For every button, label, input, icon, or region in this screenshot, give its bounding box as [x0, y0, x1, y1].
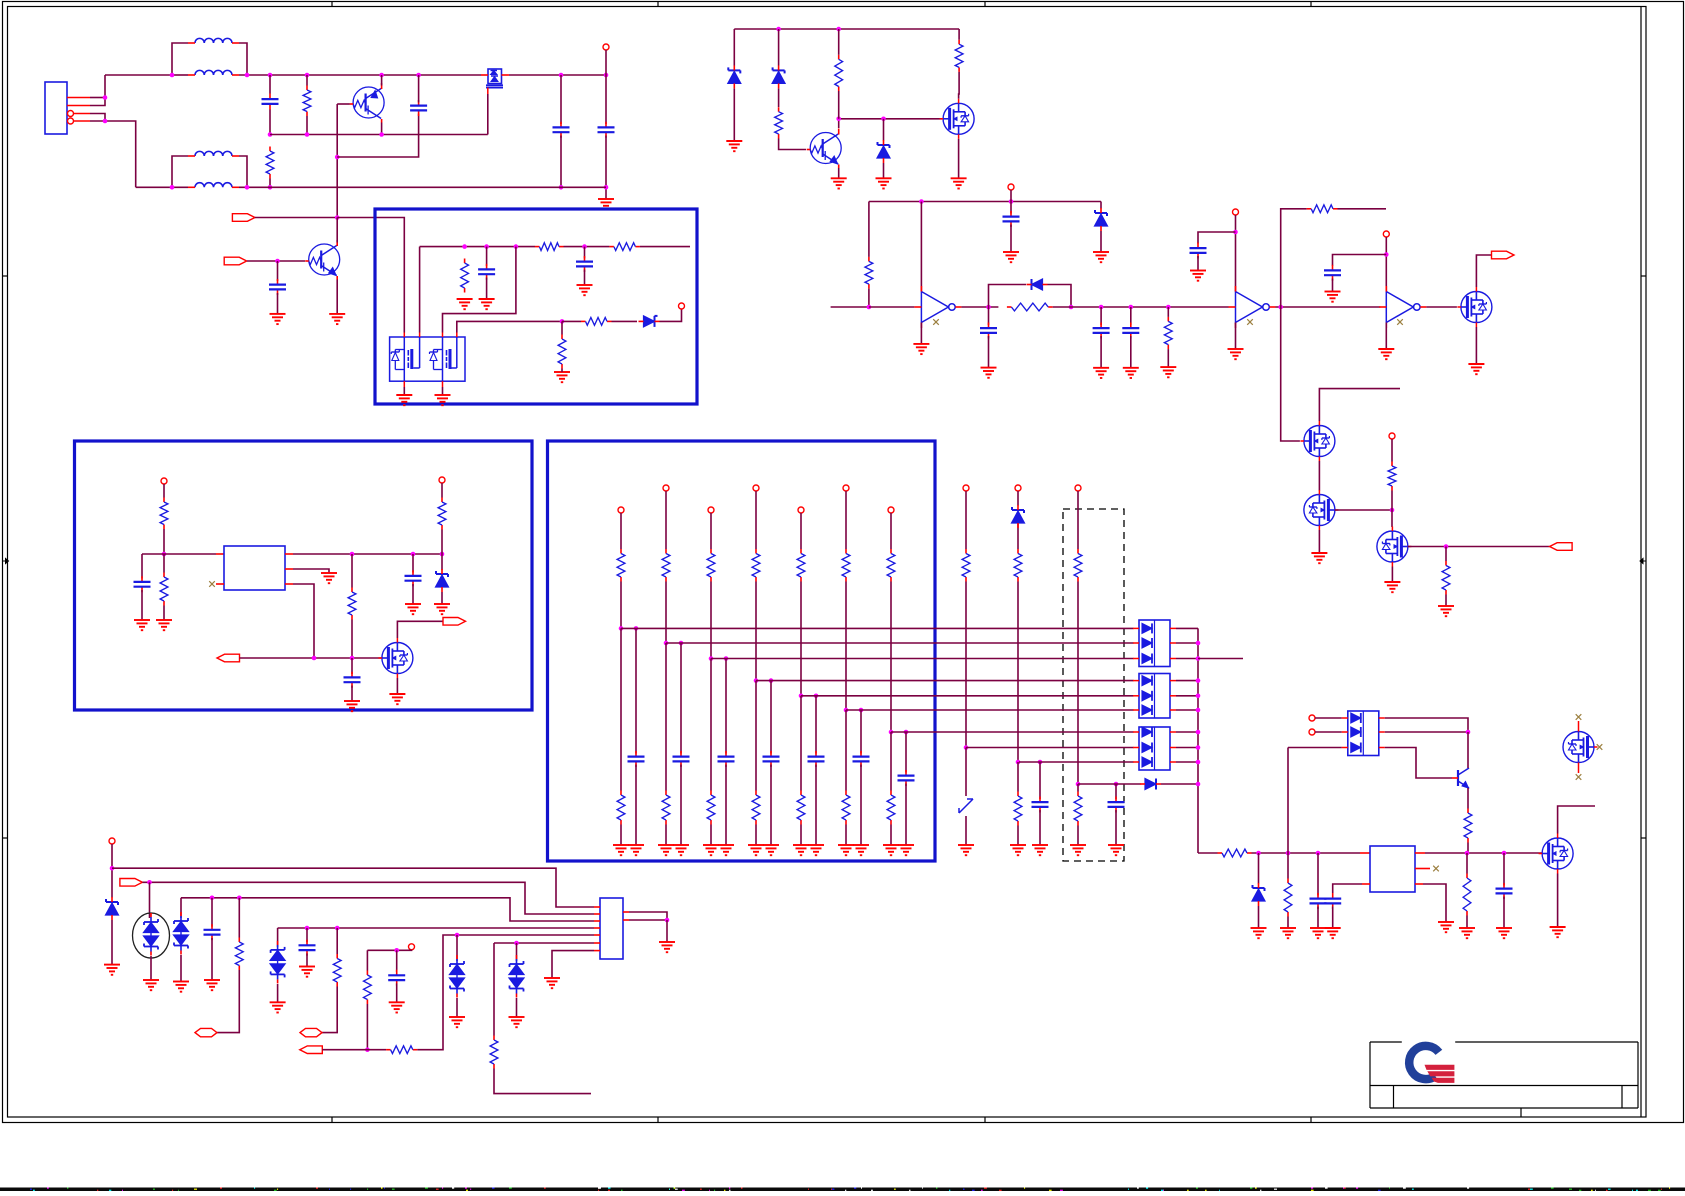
ground at R23 — [1280, 928, 1296, 938]
terminal ladder6 — [843, 485, 849, 491]
ground ladder8 — [958, 845, 974, 855]
capacitor C6 — [269, 279, 286, 295]
capacitor CL9 — [1032, 797, 1049, 813]
junction R7 top — [560, 319, 565, 324]
wire cap leg3 bottom — [725, 765, 727, 846]
junction C9 top — [1009, 199, 1014, 204]
wire R21 bottom — [1467, 843, 1469, 854]
net label BIDIR2 — [300, 1028, 322, 1036]
wire R7 stub — [561, 321, 563, 334]
junction ladder6 bus — [844, 708, 849, 713]
zener D1 — [639, 316, 660, 327]
junction R9 top — [836, 27, 841, 32]
terminal ladder2 — [663, 485, 669, 491]
wire DA4 row3 in — [1288, 747, 1342, 749]
junction collect y732.0 — [1196, 730, 1201, 735]
wire inductor loop lower — [172, 156, 188, 187]
net label BL-A — [120, 879, 142, 887]
inverter U1A — [914, 286, 961, 328]
ground at M4 — [1468, 364, 1484, 374]
junction C8 top — [582, 244, 587, 249]
wire C14 tap — [1333, 255, 1387, 266]
wire inv2 out — [1276, 306, 1381, 308]
wire br bus b — [1252, 852, 1361, 854]
resistor R11 — [865, 257, 873, 289]
zener diode Z6 — [1012, 505, 1025, 528]
wire cap leg10 top — [1115, 784, 1117, 799]
wire inv2 out up — [1281, 209, 1307, 307]
wire C7 top — [486, 247, 488, 266]
wire OPT1 to DA4 — [1315, 717, 1342, 719]
wire ladder9 top2 — [1017, 523, 1019, 549]
junction C10 top — [1099, 305, 1104, 310]
junction ladder3 bus — [709, 656, 714, 661]
wire Z7 bottom — [1258, 906, 1260, 928]
no-connect M9 drain — [1576, 714, 1582, 720]
wire ladder9 gnd — [1017, 826, 1019, 846]
wire cap leg6 top — [860, 710, 862, 754]
wire matrix bus 2 — [666, 642, 1134, 644]
wire VCC5 to R15 — [1391, 439, 1393, 462]
inductor L2 — [188, 70, 239, 75]
wire ladder2 gnd — [665, 825, 667, 846]
zener diode Z3 — [877, 140, 890, 163]
wire BL bus4 — [278, 927, 594, 929]
resistor RL6b — [842, 791, 850, 825]
wire bus3 extension — [1198, 658, 1243, 660]
terminal ladder9 — [1015, 485, 1021, 491]
ground ladder1 — [613, 845, 629, 855]
ground at C18 — [1310, 928, 1326, 938]
ground at TVS5 — [509, 1017, 525, 1027]
resistor R8 — [775, 107, 783, 138]
junction ladder7 bus — [889, 730, 894, 735]
wire to R6 — [562, 320, 581, 322]
wire Z3 bottom — [883, 163, 885, 178]
wire C13 tap — [1198, 232, 1236, 244]
wire R9 top — [838, 29, 840, 55]
diode array DA3 — [1139, 727, 1170, 770]
resistor R15 — [1388, 462, 1396, 491]
wire ladder7 lower — [890, 732, 892, 791]
junction cap leg1 — [634, 626, 639, 631]
capacitor C7 — [478, 264, 495, 280]
resistor R9 — [835, 55, 843, 91]
wire cap leg5 top — [815, 696, 817, 754]
wire ladder3 gnd — [710, 825, 712, 846]
wire R10 to M3 drain — [958, 72, 961, 99]
resistor R27 — [364, 971, 372, 1005]
junction collect y643.0 — [1196, 641, 1201, 646]
terminal ladder7 — [888, 507, 894, 513]
wire inv1 gnd — [920, 323, 922, 344]
wire cap leg3 top — [725, 659, 727, 754]
wire top bus segment — [172, 74, 188, 76]
wire to C11 — [1101, 306, 1131, 308]
terminal ladder8 — [963, 485, 969, 491]
wire ladder5 gnd — [800, 825, 802, 846]
wire inv3 out — [1426, 306, 1457, 308]
capacitor C17 — [344, 672, 361, 688]
wire ladder5 top — [800, 513, 802, 549]
wire C19 bottom — [1332, 907, 1334, 929]
resistor RL9 — [1014, 549, 1022, 582]
wire M1 gate down to mid bus — [487, 94, 489, 135]
junction C14 tap — [1384, 252, 1389, 257]
junction collect y747.5 — [1196, 745, 1201, 750]
wire bus to C3 — [382, 74, 419, 76]
ground at R13 — [1160, 367, 1176, 377]
wire C1 upper — [269, 75, 271, 94]
wire VCC4 down — [1385, 237, 1387, 292]
wire C21 bottom — [211, 938, 213, 980]
junction M6 gate/R15 — [1390, 508, 1395, 513]
capacitor C11 — [1093, 323, 1110, 339]
wire Q2 collector — [336, 218, 338, 243]
ground at Q2 emitter — [329, 314, 345, 324]
resistor RL2b — [662, 791, 670, 825]
resistor R24 — [1463, 874, 1471, 916]
resistor RL2 — [662, 549, 670, 582]
junction C1/mid-bus — [268, 132, 273, 137]
wire ladder5 mid — [800, 582, 802, 696]
dashed option box — [1063, 509, 1124, 861]
wire ladder3 top — [710, 513, 712, 549]
wire bus5 b — [417, 935, 594, 1050]
connector J2 left pin 2 — [594, 913, 600, 915]
junction TVS5 top — [514, 941, 519, 946]
junction cap leg7 — [904, 730, 909, 735]
resistor R2 — [266, 147, 274, 179]
wire C12 stub — [1130, 307, 1132, 325]
ground cap leg2 — [673, 845, 689, 855]
wire bus to Q1 — [307, 74, 382, 76]
wire ladder7 mid — [890, 582, 892, 733]
junction DA4 out — [1466, 730, 1471, 735]
wire inv3 gnd — [1385, 323, 1387, 350]
ground at C15 — [405, 604, 421, 614]
ground cap leg10 — [1108, 845, 1124, 855]
junction cap leg3 — [724, 656, 729, 661]
capacitor C12 — [1122, 323, 1139, 339]
resistor R29 — [490, 1036, 498, 1069]
inductor L1 — [188, 38, 239, 43]
wire pin2 to node V1 — [90, 75, 105, 106]
resistor RL4 — [752, 549, 760, 582]
ground ladder4 — [748, 845, 764, 855]
junction inv2 out — [1278, 305, 1283, 310]
capacitor C8 — [576, 256, 593, 272]
wire C12 bottom — [1130, 336, 1132, 368]
wire ladder2 mid — [665, 582, 667, 644]
ground at J2 — [659, 942, 675, 952]
inductor L3 — [188, 151, 239, 156]
diode array DA2 diode 3 — [1133, 705, 1176, 715]
wire cap leg6 bottom — [860, 765, 862, 846]
junction C15 top — [411, 552, 416, 557]
diode array DA2 — [1139, 674, 1170, 719]
terminal ladder4 — [753, 485, 759, 491]
IC U3 right pin2 — [1415, 868, 1430, 870]
wire TVS2 bottom — [180, 955, 182, 982]
capacitor C14 — [1324, 265, 1341, 281]
wire terminal to bus — [605, 50, 607, 75]
wire bus5 a — [322, 1049, 386, 1051]
wire TVS3 top — [277, 928, 279, 947]
junction collect y710.0 — [1196, 708, 1201, 713]
wire ladder10 lower — [1077, 784, 1079, 792]
wire matrix bus 5 — [801, 695, 1134, 697]
ground at inv3 — [1378, 349, 1394, 359]
ground at R7 — [554, 372, 570, 382]
ground at C8 — [577, 285, 593, 295]
wire C9 top — [1010, 202, 1012, 214]
diode array DA4 diode 2 — [1342, 727, 1385, 737]
wire ladder6 top — [845, 491, 847, 549]
wire R27 top — [366, 950, 368, 970]
junction base bus — [335, 155, 340, 160]
resistor RL10 — [1074, 549, 1082, 582]
wire VCC3 down — [1235, 215, 1237, 292]
wire Z8 bottom — [111, 920, 113, 965]
junction ladder2 bus — [664, 641, 669, 646]
junction collect y762.0 — [1196, 760, 1201, 765]
wire array out y710.0 — [1176, 709, 1198, 711]
ground at M2A — [396, 395, 412, 405]
capacitor C9 — [1003, 211, 1020, 227]
ground at TVS1 — [143, 980, 159, 990]
wire ladder8 mid — [965, 582, 967, 748]
wire TVS2 top — [180, 898, 182, 918]
wire ladder10 gnd — [1077, 826, 1079, 846]
junction L3/L4 right — [245, 185, 250, 190]
wire Q3 collector up — [838, 119, 840, 128]
terminal BL1 — [109, 838, 115, 844]
junction C23 top — [394, 948, 399, 953]
wire C23 bottom — [396, 983, 398, 1002]
wire input to inv1 — [869, 306, 915, 308]
ground at Q3 — [831, 178, 847, 188]
net label EN — [217, 654, 240, 662]
wire bus6 — [494, 942, 594, 944]
junction L1/L2 left — [170, 73, 175, 78]
capacitor C10 — [980, 323, 997, 339]
wire C6 top — [277, 261, 279, 281]
wire ladder1 gnd — [620, 825, 622, 846]
wire collect vertical — [1197, 628, 1199, 853]
IC U3 — [1370, 846, 1415, 892]
zener diode Z5 — [436, 569, 449, 592]
IC U2 right pin1 — [285, 553, 293, 555]
wire gate node — [839, 118, 942, 120]
wire C20 bottom — [1503, 897, 1505, 929]
junction ladder4 bus — [754, 678, 759, 683]
zener diode Z4 — [1095, 208, 1108, 231]
wire R20 to bus — [441, 530, 443, 555]
junction cap leg5 — [814, 694, 819, 699]
wire matrix bus 10b — [1161, 783, 1198, 785]
wire C1 to mid bus — [269, 110, 271, 135]
wire R16 stub — [1445, 547, 1447, 562]
terminal VIN2b — [439, 477, 445, 483]
wire cap leg9 bottom — [1039, 810, 1041, 845]
connector J2 — [600, 898, 623, 959]
wire BL2 stub — [409, 949, 412, 952]
wire bus end cap — [141, 554, 143, 579]
wire top bus right of M1 — [509, 74, 561, 76]
wire TVS3 bottom — [277, 984, 279, 1002]
wire inductor loop top — [172, 43, 188, 75]
zener diode Z2 — [772, 65, 785, 88]
junction C5 top — [604, 73, 609, 78]
junction C13 tap — [1233, 230, 1238, 235]
junction Q3 collector — [836, 117, 841, 122]
TVS diode pair DT3 — [270, 941, 285, 984]
wire TVS4 bottom — [456, 998, 458, 1017]
MOSFET M2A — [391, 337, 419, 381]
net label CTRL — [1550, 543, 1573, 551]
wire R15 to M7 — [1391, 491, 1393, 528]
wire Z5 bottom — [441, 592, 443, 604]
wire EN to gate — [240, 657, 382, 659]
junction R13 top — [1166, 305, 1171, 310]
company logo — [1409, 1046, 1454, 1083]
wire C8 top — [584, 247, 586, 259]
junction TVS1 top — [147, 880, 152, 885]
inductor L4 — [188, 183, 239, 188]
resistor RL3 — [707, 549, 715, 582]
capacitor C1 — [262, 94, 279, 110]
wire stage2 vcc bus — [869, 201, 1101, 203]
ground at Z8 — [104, 965, 120, 975]
terminal VCC5 — [1389, 433, 1395, 439]
junction R1 top — [305, 73, 310, 78]
wire cap leg1 bottom — [635, 765, 637, 846]
wire Q2 emitter — [336, 280, 338, 314]
ground at R16 — [1438, 606, 1454, 616]
junction pin3/pin4 — [103, 119, 108, 124]
wire array out y732.0 — [1176, 731, 1198, 733]
junction C18 top — [1316, 851, 1321, 856]
junction D2 branch left — [986, 305, 991, 310]
ground cap leg7 — [898, 845, 914, 855]
wire C5 vertical bottom — [605, 136, 607, 200]
wire to inv2 — [1168, 306, 1228, 308]
wire M6 gate to node — [1335, 509, 1392, 511]
wire R29 bottom — [494, 1069, 591, 1094]
ground at M8 — [389, 694, 405, 704]
resistor RL1 — [617, 549, 625, 582]
resistor R28 — [386, 1046, 417, 1054]
terminal VCC3 — [1233, 209, 1239, 215]
resistor R7 — [558, 335, 566, 369]
wire C15 bottom — [412, 584, 414, 604]
wire Q1 base down — [336, 104, 338, 218]
wire ladder4 mid — [755, 582, 757, 681]
pin stub M2A drain — [404, 333, 457, 338]
wire BL bus1 — [112, 868, 594, 907]
capacitor C15 — [405, 570, 422, 586]
TVS diode pair DT4 — [450, 955, 465, 998]
wire R6 to D1 — [612, 320, 638, 322]
wire IN1 to box — [255, 217, 337, 219]
capacitor C13 — [1190, 243, 1207, 259]
wire R13 bottom — [1167, 349, 1169, 367]
wire matrix bus 1 — [621, 627, 1134, 629]
wire Q1 emitter — [381, 123, 383, 135]
wire inv2 gnd — [1235, 323, 1237, 350]
ground at Z4 — [1093, 252, 1109, 262]
IC U3 right pin3 — [1415, 883, 1423, 885]
resistor RL4b — [752, 791, 760, 825]
wire C18 bottom — [1317, 907, 1319, 929]
wire inv1 vcc — [920, 202, 922, 292]
ground ladder2 — [658, 845, 674, 855]
title block — [1370, 1042, 1638, 1117]
capacitor C23 — [388, 970, 405, 986]
IC U2 right pin3 — [285, 583, 293, 585]
wire ladder8 gnd — [965, 816, 967, 845]
wire ladder1 mid — [620, 582, 622, 629]
wire cap leg9 top — [1039, 762, 1041, 799]
MOSFET M3 — [940, 99, 975, 139]
capacitor C5 — [598, 122, 615, 138]
wire R25 stub — [238, 898, 240, 938]
wire M5 drain up — [1319, 389, 1400, 421]
wire DA4 out2 — [1385, 731, 1468, 733]
wire inv1 out — [961, 306, 998, 308]
wire M2B source gnd — [442, 387, 444, 395]
IC U2 left pin — [216, 553, 224, 555]
wire R23 bottom — [1287, 917, 1289, 929]
resistor R19 — [160, 573, 168, 606]
MOSFET M1 with body diode — [481, 69, 509, 94]
diode array DA3 diode 2 — [1133, 743, 1176, 753]
diode D3 — [1140, 779, 1161, 790]
thermistor/switch SW1 — [959, 799, 973, 813]
wire R17 to bus — [163, 529, 165, 554]
wire VIN2 to R17 — [163, 484, 165, 498]
wire ladder2 lower — [665, 643, 667, 791]
junction ladder10 bus — [1076, 782, 1081, 787]
ground at U3 pin3 — [1438, 922, 1454, 932]
no-connect M9 gate — [1597, 744, 1603, 750]
connector J2 left pin 7 — [594, 950, 600, 952]
wire R8 to Q3 base — [779, 139, 806, 150]
wire ladder6 lower — [845, 710, 847, 791]
terminal VIN2 — [161, 478, 167, 484]
junction IN2/C6 — [275, 259, 280, 264]
ground ladder6 — [838, 845, 854, 855]
ground at C14 — [1325, 292, 1341, 302]
wire C10 bottom — [988, 336, 990, 368]
junction C1 top — [268, 73, 273, 78]
wire stage2 top bus — [734, 28, 959, 30]
ground at Z1 — [726, 141, 742, 151]
wire br bus a — [1198, 852, 1218, 854]
transistor Q4 — [1452, 768, 1469, 788]
wire C22 bottom — [306, 953, 308, 966]
junction TVS4 top — [455, 933, 460, 938]
TVS package circle — [133, 913, 170, 958]
wire U3 to C19 — [1333, 884, 1362, 893]
pin stub M2A source — [404, 381, 442, 387]
ground at C23 — [389, 1002, 405, 1012]
terminal FB — [679, 303, 685, 309]
capacitor C18 — [1310, 893, 1327, 909]
wire matrix bus 7 — [891, 731, 1134, 733]
wire BL bus2 — [142, 882, 594, 914]
